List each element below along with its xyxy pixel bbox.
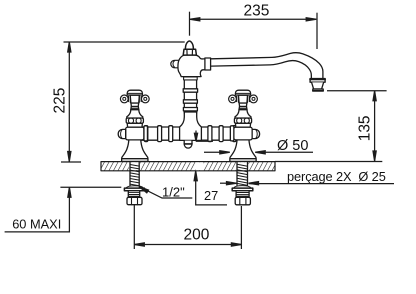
left hex nut [127, 197, 142, 204]
center under-bar dome [184, 141, 192, 149]
dim 235: arrow right [306, 18, 316, 21]
dim 135: arrow bottom [373, 151, 376, 161]
finial (acorn top) [185, 41, 193, 49]
center under-bar dome band [184, 143, 192, 145]
dim 27: bar bottom short extension [196, 140, 213, 142]
column ring 1 [183, 89, 197, 92]
dim 200: extension line left (rod centerline) [133, 205, 135, 249]
column ring 3 [183, 108, 197, 111]
hex collar under finial [183, 49, 196, 55]
dim 200: dimension line [134, 244, 241, 246]
left washer [124, 188, 144, 191]
bridge bar [134, 127, 243, 140]
leader 1/2": arrow at rod [139, 187, 149, 193]
dim 27: lower up-arrow at deck underside, leader to text [194, 171, 197, 181]
dim 200: arrow right [231, 243, 241, 246]
right washer [232, 188, 253, 191]
svg-text:Ø 50: Ø 50 [277, 138, 308, 154]
leader diameter 50: left segment [204, 151, 230, 153]
dim 235: dimension line [190, 18, 316, 20]
column ring 2 [183, 100, 197, 103]
leader percage: right line [249, 183, 394, 185]
spout nozzle flange [310, 79, 325, 83]
dim 225: bottom extension line [61, 161, 81, 163]
dim 27: upper down-arrow at bar bottom [195, 131, 197, 137]
leader 1/2": line [139, 187, 192, 198]
left threaded collar below washer [128, 191, 139, 198]
right threaded rod through deck [237, 162, 248, 186]
center tee flare [180, 112, 202, 140]
spout nozzle taper [312, 82, 324, 89]
right hex nut [235, 197, 250, 205]
svg-text:perçage 2X Ø 25: perçage 2X Ø 25 [287, 169, 386, 184]
svg-text:60 MAXI: 60 MAXI [12, 217, 61, 232]
leader diameter 50: right segment [256, 151, 314, 153]
dim 135: top extension line [327, 90, 387, 92]
svg-text:27: 27 [204, 188, 218, 203]
dim 200: extension line right (rod centerline) [240, 206, 242, 249]
leader 60 MAXI: vertical + underline [5, 193, 70, 232]
right valve assembly [229, 90, 260, 161]
leader percage: left arrow pointing right at rod [220, 182, 228, 184]
svg-text:235: 235 [244, 3, 270, 20]
bar rib 4 [219, 126, 223, 142]
dim 200: arrow left [134, 243, 144, 246]
leader 60 MAXI: up arrow [68, 187, 71, 197]
dim 235: extension line left [189, 12, 191, 36]
spout body (top tee of column) [178, 55, 206, 77]
dim 135: dimension line [374, 91, 376, 161]
right dome washer [234, 186, 251, 189]
dim 225: arrow bottom [68, 152, 71, 162]
deck (countertop section, hatched) [101, 162, 275, 171]
spout tube and curve [211, 53, 323, 79]
spout nozzle tip [313, 89, 323, 91]
dim 135: arrow top [373, 91, 376, 101]
dim 235: arrow left [190, 18, 200, 21]
dim 235: extension line right [316, 13, 318, 49]
leader diameter 50: right arrow (points left at bell) [255, 151, 265, 154]
dim 225: arrow top [68, 42, 71, 52]
svg-text:225: 225 [52, 88, 69, 114]
leader percage: right arrow pointing left at rod [249, 182, 259, 185]
svg-text:1/2": 1/2" [162, 184, 185, 199]
bar junction collar at right valve [233, 126, 236, 142]
svg-text:135: 135 [357, 115, 374, 141]
bar rib 3 [208, 126, 212, 142]
spout ferrule collar [205, 58, 211, 70]
leader diameter 50: left arrow (points right at bell) [220, 151, 230, 154]
left dome washer [126, 186, 143, 188]
left valve assembly [118, 90, 149, 161]
svg-text:200: 200 [184, 227, 210, 244]
dim 225: top extension line [64, 41, 185, 43]
bar junction collar at left valve [144, 126, 147, 142]
right threaded collar below washer [236, 191, 249, 198]
left threaded rod through deck [130, 162, 139, 187]
dim 225: dimension line [68, 42, 70, 162]
bar rib 1 [158, 126, 162, 142]
spout body left nub [171, 60, 180, 68]
bar rib 2 [169, 126, 173, 142]
leader 60 MAXI: reference line at washer level [60, 186, 121, 188]
column top step [184, 77, 198, 80]
deck top extension line (right) [275, 161, 382, 163]
central column [184, 77, 196, 113]
